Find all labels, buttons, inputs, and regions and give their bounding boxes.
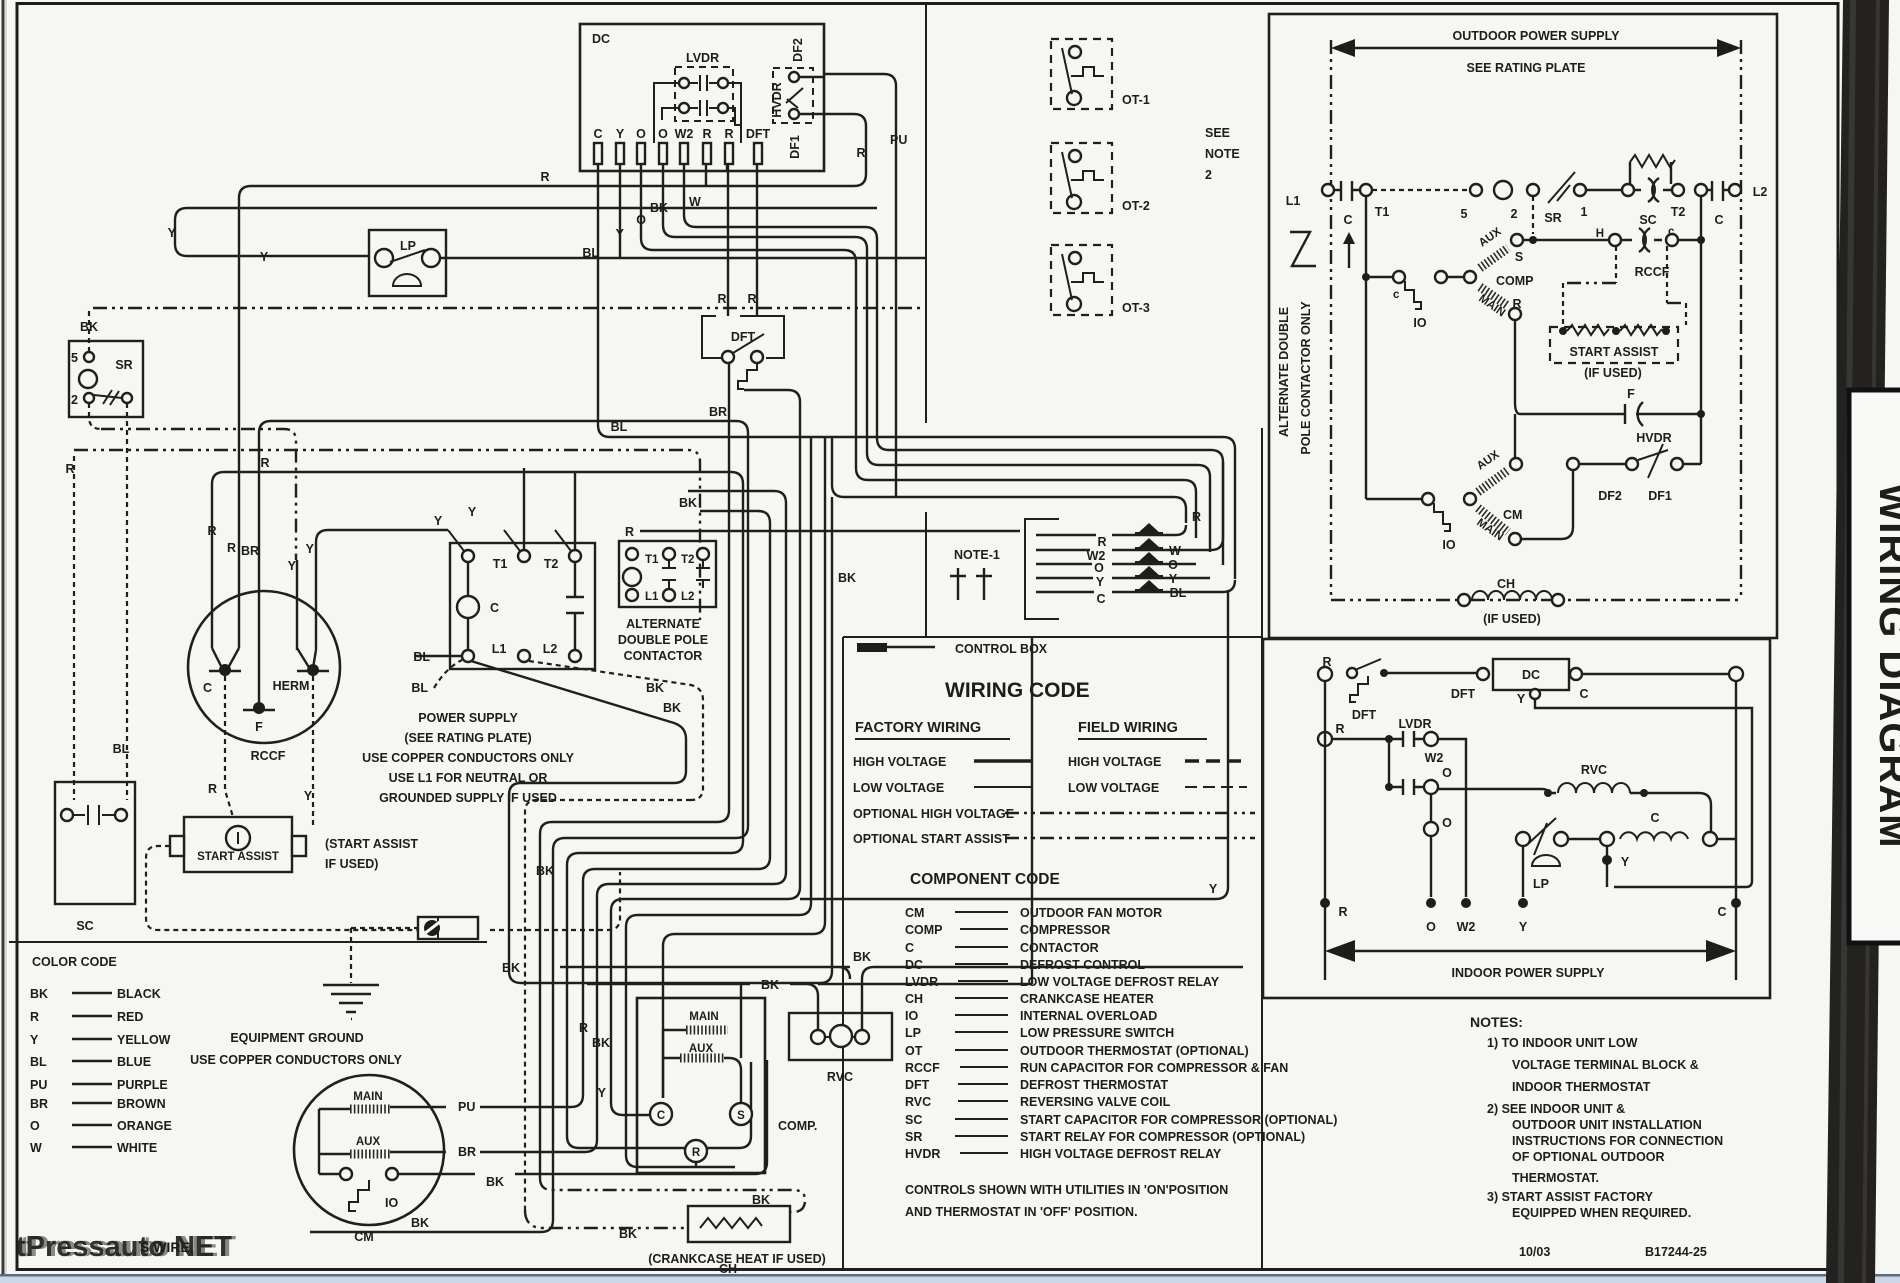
svg-text:DFT: DFT — [746, 127, 771, 141]
wire HVDR to bus — [1683, 463, 1701, 465]
svg-text:BK: BK — [536, 864, 554, 878]
contactor terminal L1 — [462, 650, 474, 662]
svg-text:L2: L2 — [543, 642, 558, 656]
svg-text:INSTRUCTIONS FOR CONNECTION: INSTRUCTIONS FOR CONNECTION — [1512, 1134, 1723, 1148]
wire Y fork feed — [296, 560, 298, 650]
SC resistor bypass — [1630, 162, 1671, 184]
wire BR run — [259, 421, 736, 708]
LVDR contact bottom-right — [718, 103, 728, 113]
start relay SR box — [69, 341, 143, 417]
svg-text:F: F — [255, 720, 263, 734]
harness row Y — [1036, 577, 1210, 579]
svg-text:R: R — [724, 127, 733, 141]
svg-text:DC: DC — [905, 958, 923, 972]
svg-text:Y: Y — [306, 542, 315, 556]
bundle wire 5 — [480, 491, 786, 1152]
wire RVC to corner — [1630, 793, 1711, 839]
harness row R — [1036, 525, 1186, 535]
dashed RCCF drop left — [1615, 246, 1617, 283]
svg-text:W2: W2 — [1457, 920, 1476, 934]
wire dashed L1 to 5 — [1372, 189, 1470, 191]
svg-text:BK: BK — [30, 987, 48, 1001]
CM IO hook — [1434, 503, 1450, 531]
LVDR contact top-right — [718, 78, 728, 88]
svg-text:S: S — [737, 1110, 745, 1122]
COMP terminal S — [730, 1103, 752, 1125]
SR switch blade — [1548, 172, 1575, 203]
SC contact right — [115, 809, 127, 821]
outdoor thermostat OT-3 dashed box — [1051, 245, 1112, 315]
DFT contact left — [722, 351, 734, 363]
node T2 — [1672, 184, 1684, 196]
svg-text:(START ASSIST: (START ASSIST — [325, 837, 418, 851]
svg-text:INDOOR POWER SUPPLY: INDOOR POWER SUPPLY — [1451, 966, 1605, 980]
bundle wire 4 — [480, 511, 770, 1107]
svg-text:DF2: DF2 — [791, 38, 805, 62]
run capacitor RCCF circle — [188, 591, 340, 743]
LVDR contact top-left — [679, 78, 689, 88]
wire T1 to CM — [1366, 498, 1422, 500]
svg-text:DFT: DFT — [1451, 687, 1476, 701]
svg-text:BL: BL — [1170, 586, 1187, 600]
alt contactor post3 — [697, 548, 709, 560]
svg-text:INDOOR THERMOSTAT: INDOOR THERMOSTAT — [1512, 1080, 1651, 1094]
wire BK from CM IO — [398, 1060, 767, 1174]
svg-text:OPTIONAL START ASSIST: OPTIONAL START ASSIST — [853, 832, 1010, 846]
start assist tab left — [170, 836, 184, 856]
svg-text:C: C — [1650, 811, 1659, 825]
svg-text:POLE CONTACTOR ONLY: POLE CONTACTOR ONLY — [1299, 301, 1313, 455]
svg-text:R: R — [1338, 905, 1347, 919]
svg-text:(IF USED): (IF USED) — [1483, 612, 1541, 626]
control box DC — [580, 24, 824, 171]
RCCF left fork — [209, 648, 241, 671]
svg-text:BR: BR — [458, 1145, 476, 1159]
svg-text:RED: RED — [117, 1010, 143, 1024]
svg-text:Y: Y — [1519, 920, 1528, 934]
svg-text:BK: BK — [650, 201, 668, 215]
DFT switch pivot — [1347, 668, 1357, 678]
node C coil left — [1600, 832, 1614, 846]
svg-text:START RELAY FOR COMPRESSOR (OP: START RELAY FOR COMPRESSOR (OPTIONAL) — [1020, 1130, 1305, 1144]
OT-2 contacts — [1069, 150, 1081, 162]
wire LVDR left to O terminal — [654, 83, 679, 143]
wire Y jog — [1535, 699, 1752, 887]
svg-text:(SEE RATING PLATE): (SEE RATING PLATE) — [404, 731, 531, 745]
wire to comp winding — [1447, 276, 1464, 278]
svg-text:SC: SC — [76, 919, 93, 933]
svg-text:R: R — [702, 127, 711, 141]
wire right bus vertical — [1700, 196, 1702, 464]
contactor terminal T1 top — [462, 550, 474, 562]
svg-text:OT-2: OT-2 — [1122, 199, 1150, 213]
OT-1 blade and step — [1062, 48, 1104, 94]
wire BK to RVC right — [560, 967, 1243, 1030]
LP dome — [1532, 855, 1560, 866]
svg-text:(IF USED): (IF USED) — [1584, 366, 1642, 380]
svg-text:SEE: SEE — [1205, 126, 1230, 140]
svg-text:Y: Y — [616, 127, 625, 141]
RVC contacts — [811, 1030, 825, 1044]
svg-text:BL: BL — [113, 742, 130, 756]
svg-text:R: R — [1192, 510, 1201, 524]
svg-text:ALTERNATE: ALTERNATE — [626, 617, 700, 631]
svg-text:REVERSING VALVE COIL: REVERSING VALVE COIL — [1020, 1095, 1171, 1109]
defrost thermostat DFT box — [702, 316, 784, 358]
wire SR bottom dashed — [89, 403, 101, 429]
indoor schematic box — [1263, 639, 1770, 998]
node L2 — [1729, 184, 1741, 196]
svg-text:CM: CM — [905, 906, 924, 920]
svg-text:AUX: AUX — [689, 1043, 714, 1055]
wire dashed RCCF to start assist R — [225, 676, 233, 817]
wire T1 down — [1365, 196, 1367, 499]
node Y under DC — [1530, 689, 1540, 699]
contactor capacitor — [566, 562, 584, 650]
SR terminal 2 — [84, 393, 94, 403]
outdoor thermostat OT-1 dashed box — [1051, 39, 1112, 109]
wire L2 dashed diagonal — [525, 661, 703, 1210]
svg-text:USE COPPER CONDUCTORS ONLY: USE COPPER CONDUCTORS ONLY — [190, 1053, 403, 1067]
svg-text:PURPLE: PURPLE — [117, 1078, 168, 1092]
wire LP down to Y terminal — [1522, 846, 1524, 897]
CM IO contact right — [386, 1168, 398, 1180]
svg-text:W2: W2 — [1425, 751, 1444, 765]
svg-text:HERM: HERM — [273, 679, 310, 693]
wire optional high voltage dash-dot run A — [93, 307, 926, 309]
svg-text:DFT: DFT — [905, 1078, 930, 1092]
svg-text:Y: Y — [1169, 572, 1178, 586]
HVDR blade slashes — [1638, 444, 1668, 478]
node O bottom — [1426, 898, 1436, 908]
crankcase heater box — [688, 1206, 790, 1242]
node C right — [1695, 184, 1707, 196]
svg-text:C: C — [657, 1110, 665, 1122]
svg-text:INTERNAL OVERLOAD: INTERNAL OVERLOAD — [1020, 1009, 1157, 1023]
svg-text:OUTDOOR THERMOSTAT (OPTIONAL): OUTDOOR THERMOSTAT (OPTIONAL) — [1020, 1044, 1249, 1058]
start assist box — [184, 817, 292, 872]
start assist dashed box — [1550, 327, 1678, 363]
svg-text:S: S — [1515, 250, 1523, 264]
svg-text:LOW VOLTAGE: LOW VOLTAGE — [1068, 781, 1159, 795]
svg-text:BLUE: BLUE — [117, 1055, 151, 1069]
relay LVDR dashed outline — [675, 67, 733, 121]
svg-text:R: R — [579, 1021, 588, 1035]
svg-text:L2: L2 — [681, 591, 694, 603]
svg-text:NOTES:: NOTES: — [1470, 1014, 1523, 1030]
svg-text:DC: DC — [1522, 668, 1540, 682]
wire R optional run — [212, 472, 731, 648]
svg-text:CONTROL BOX: CONTROL BOX — [955, 642, 1048, 656]
svg-text:5: 5 — [71, 351, 78, 365]
outdoor thermostat OT-2 dashed box — [1051, 143, 1112, 213]
svg-text:IO: IO — [905, 1009, 918, 1023]
wire F to aux — [1514, 414, 1516, 458]
svg-text:BK: BK — [838, 571, 856, 585]
harness bracket NOTE-1 — [1025, 519, 1059, 619]
svg-text:IO: IO — [1442, 538, 1455, 552]
svg-text:Y: Y — [1621, 855, 1630, 869]
CM main winding diag — [1478, 508, 1508, 532]
node R bottom — [1320, 898, 1330, 908]
svg-text:C: C — [1717, 905, 1726, 919]
LP diaphragm dome — [393, 274, 421, 286]
svg-text:SR: SR — [1544, 211, 1561, 225]
node L1 — [1322, 184, 1334, 196]
svg-text:IF USED): IF USED) — [325, 857, 378, 871]
wire LP to C coil — [1568, 838, 1601, 840]
svg-text:BR: BR — [241, 544, 259, 558]
svg-text:GROUNDED SUPPLY IF USED: GROUNDED SUPPLY IF USED — [379, 791, 557, 805]
svg-text:O: O — [1168, 558, 1178, 572]
COMP wire aux to S — [724, 983, 741, 1105]
defrost control DC box — [1493, 659, 1569, 690]
svg-text:R: R — [1335, 722, 1344, 736]
svg-text:5: 5 — [1461, 207, 1468, 221]
COMP terminal R — [685, 1140, 707, 1162]
svg-text:C: C — [593, 127, 602, 141]
node T1 — [1360, 184, 1372, 196]
svg-text:Y: Y — [598, 1086, 607, 1100]
svg-text:IO: IO — [1413, 316, 1426, 330]
contactor terminal T2 top — [518, 550, 530, 562]
svg-text:W: W — [689, 195, 701, 209]
svg-text:H: H — [1596, 228, 1604, 240]
svg-text:1) TO INDOOR UNIT LOW: 1) TO INDOOR UNIT LOW — [1487, 1036, 1638, 1050]
wire 1 to SC — [1586, 189, 1622, 191]
harness arrows stack — [1138, 523, 1160, 590]
COMP IO contact2 — [1435, 271, 1447, 283]
svg-text:R: R — [1322, 655, 1331, 669]
dashed RCCF drop right — [1667, 246, 1686, 325]
svg-text:OUTDOOR POWER SUPPLY: OUTDOOR POWER SUPPLY — [1453, 29, 1621, 43]
svg-text:DEFROST THERMOSTAT: DEFROST THERMOSTAT — [1020, 1078, 1169, 1092]
equipment ground symbol — [323, 985, 379, 1019]
alt contactor T bars — [662, 560, 710, 588]
svg-text:EQUIPPED WHEN REQUIRED.: EQUIPPED WHEN REQUIRED. — [1512, 1206, 1691, 1220]
svg-text:L1: L1 — [645, 591, 659, 603]
svg-text:O: O — [30, 1119, 40, 1133]
LVDR contact bars top — [689, 75, 718, 91]
svg-text:BR: BR — [30, 1097, 48, 1111]
harness row W2 — [1036, 462, 1223, 550]
svg-text:AND THERMOSTAT IN 'OFF' POSITI: AND THERMOSTAT IN 'OFF' POSITION. — [905, 1205, 1138, 1219]
svg-text:LVDR: LVDR — [905, 975, 938, 989]
svg-text:WIRING CODE: WIRING CODE — [945, 679, 1090, 702]
svg-text:PU: PU — [30, 1078, 47, 1092]
svg-text:DC: DC — [592, 32, 610, 46]
CM left bus — [318, 1109, 320, 1174]
CM node center — [1464, 493, 1476, 505]
OT-1 contacts — [1069, 46, 1081, 58]
svg-text:SC: SC — [905, 1113, 922, 1127]
svg-text:T1: T1 — [493, 557, 508, 571]
SC capacitor bars — [73, 805, 115, 825]
bundle wire 6 Y long run — [623, 390, 1228, 899]
harness row O — [1036, 563, 1196, 565]
DFT contact right — [751, 351, 763, 363]
svg-text:R: R — [207, 524, 216, 538]
capacitor C right — [1707, 181, 1729, 201]
svg-text:LP: LP — [400, 239, 416, 253]
start capacitor SC box — [55, 782, 135, 904]
svg-text:OF OPTIONAL OUTDOOR: OF OPTIONAL OUTDOOR — [1512, 1150, 1665, 1164]
node LP left — [1516, 832, 1530, 846]
svg-text:BK: BK — [619, 1227, 637, 1241]
svg-text:Y: Y — [468, 505, 477, 519]
svg-text:C: C — [1579, 687, 1588, 701]
dagger symbols — [950, 568, 992, 600]
harness row C — [1036, 580, 1235, 592]
svg-text:BL: BL — [411, 681, 428, 695]
svg-text:BK: BK — [663, 701, 681, 715]
svg-text:WHITE: WHITE — [117, 1141, 157, 1155]
svg-text:RCCF: RCCF — [905, 1061, 940, 1075]
svg-text:SR: SR — [905, 1130, 922, 1144]
wire to DC — [1384, 672, 1477, 674]
CM aux winding diag — [1478, 470, 1508, 492]
svg-text:R: R — [717, 292, 726, 306]
LP contact left — [375, 249, 393, 267]
svg-text:HVDR: HVDR — [770, 82, 784, 117]
bundle wire 2 tail BK under CM — [310, 1220, 553, 1232]
wire RCCF to bus — [1678, 239, 1701, 241]
wire W2 run — [684, 163, 1223, 565]
W2 capacitor — [1389, 779, 1424, 795]
node 1 — [1574, 184, 1586, 196]
wire DF2 to HVDR — [1579, 463, 1626, 465]
svg-text:BR: BR — [709, 405, 727, 419]
wire BL into L1 — [414, 655, 462, 657]
bundle wire 6 left tail — [611, 899, 651, 1115]
svg-text:FIELD WIRING: FIELD WIRING — [1078, 720, 1178, 736]
wire R2 to DFT box — [728, 163, 757, 316]
node R top — [1318, 667, 1332, 681]
node R mid — [1318, 732, 1332, 746]
crankcase CH coil row — [1458, 594, 1470, 606]
svg-text:EQUIPMENT GROUND: EQUIPMENT GROUND — [230, 1031, 363, 1045]
wire R to LVDR — [1332, 738, 1389, 740]
start assist dashed bracket — [146, 846, 620, 930]
svg-text:CH: CH — [719, 1262, 737, 1276]
svg-text:LVDR: LVDR — [1398, 717, 1431, 731]
DFT thermal hook — [738, 363, 757, 389]
outdoor schematic box — [1269, 14, 1777, 638]
COMP IO hook — [1405, 281, 1421, 309]
svg-text:Y: Y — [434, 514, 443, 528]
wire Y long run — [175, 163, 877, 258]
low pressure switch LP box — [369, 230, 446, 296]
contactor box — [450, 543, 595, 669]
wire dash-dot crankcase lower — [525, 1210, 688, 1228]
node Y bottom — [1518, 898, 1528, 908]
wire R to harness — [706, 163, 1186, 523]
svg-text:HIGH VOLTAGE DEFROST RELAY: HIGH VOLTAGE DEFROST RELAY — [1020, 1147, 1222, 1161]
svg-text:HVDR: HVDR — [1636, 431, 1671, 445]
LVDR contact bottom-left — [679, 103, 689, 113]
wire LVDR right leads — [728, 83, 741, 143]
bundle wire 1 — [540, 363, 729, 1178]
RVC coil — [1558, 783, 1630, 793]
svg-text:R: R — [692, 1147, 701, 1159]
svg-text:DF1: DF1 — [788, 135, 802, 159]
contactor coil C — [457, 596, 479, 618]
SR terminal 1 — [122, 393, 132, 403]
svg-text:W2: W2 — [675, 127, 694, 141]
contactor Y blades — [448, 530, 571, 551]
svg-text:Y: Y — [30, 1033, 39, 1047]
svg-text:OUTDOOR FAN MOTOR: OUTDOOR FAN MOTOR — [1020, 906, 1162, 920]
wire coil right to bus — [1717, 838, 1736, 840]
svg-text:POWER SUPPLY: POWER SUPPLY — [418, 711, 518, 725]
dash-dot boundary right — [1740, 40, 1742, 600]
RCCF capacitor arcs — [1621, 228, 1662, 252]
wire LP right run — [440, 257, 926, 259]
svg-text:T1: T1 — [1375, 205, 1390, 219]
wire F cap row — [1515, 320, 1701, 414]
dash-dot boundary left — [1330, 40, 1332, 600]
CM main node — [1509, 533, 1521, 545]
svg-text:USE COPPER CONDUCTORS ONLY: USE COPPER CONDUCTORS ONLY — [362, 751, 575, 765]
svg-text:COMPONENT CODE: COMPONENT CODE — [910, 871, 1060, 888]
contactor terminal right top — [569, 550, 581, 562]
svg-text:RVC: RVC — [1581, 763, 1607, 777]
COMP wire R stub — [695, 1162, 697, 1167]
svg-text:R: R — [625, 525, 634, 539]
start assist tab right — [292, 836, 306, 856]
HVDR contact bottom — [789, 109, 799, 119]
bundle wire 2 — [553, 421, 748, 1220]
alt contactor L2 — [663, 589, 675, 601]
svg-text:R: R — [227, 541, 236, 555]
svg-text:OT-1: OT-1 — [1122, 93, 1150, 107]
svg-text:CONTACTOR: CONTACTOR — [624, 649, 703, 663]
svg-text:B17244-25: B17244-25 — [1645, 1245, 1707, 1259]
SR contact blade — [94, 390, 122, 405]
svg-text:RCCF: RCCF — [251, 749, 286, 763]
svg-text:BK: BK — [679, 496, 697, 510]
arrow up symbol — [1348, 240, 1350, 268]
svg-text:AUX: AUX — [356, 1136, 381, 1148]
svg-text:DF2: DF2 — [1598, 489, 1622, 503]
HVDR contact left — [1626, 458, 1638, 470]
left bus R vertical — [1324, 681, 1326, 980]
svg-text:BK: BK — [592, 1036, 610, 1050]
contactor terminal L2b — [569, 650, 581, 662]
wire O branch down — [1430, 794, 1432, 822]
C coil — [1620, 832, 1688, 839]
svg-text:SR: SR — [115, 358, 132, 372]
alt contactor T1 — [626, 548, 638, 560]
CM aux node — [1510, 458, 1522, 470]
DFT hook — [1350, 676, 1368, 702]
svg-text:Y: Y — [1096, 575, 1105, 589]
svg-text:OUTDOOR UNIT INSTALLATION: OUTDOOR UNIT INSTALLATION — [1512, 1118, 1702, 1132]
svg-text:T2: T2 — [544, 557, 559, 571]
svg-text:R: R — [1512, 297, 1521, 311]
svg-text:BL: BL — [30, 1055, 47, 1069]
LVDR contact bars bottom — [689, 100, 718, 116]
wire dashed ground — [351, 928, 418, 983]
svg-text:MAIN: MAIN — [689, 1011, 718, 1023]
svg-text:DFT: DFT — [1352, 708, 1377, 722]
COMP terminal C — [650, 1103, 672, 1125]
svg-text:CM: CM — [1503, 508, 1522, 522]
svg-text:tPressauto NET: tPressauto NET — [20, 1231, 236, 1263]
DFT blade — [733, 334, 764, 353]
svg-text:NOTE-1: NOTE-1 — [954, 548, 1000, 562]
DFT blade — [1355, 659, 1381, 670]
